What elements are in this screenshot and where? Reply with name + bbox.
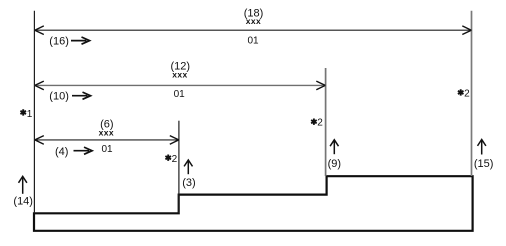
up arrow (14) [19, 176, 27, 193]
svg-text:(14): (14) [13, 196, 33, 208]
svg-text:01: 01 [247, 36, 259, 47]
svg-text:2: 2 [172, 154, 178, 165]
svg-text:(16): (16) [49, 35, 69, 47]
note *2 left [165, 154, 177, 165]
svg-text:2: 2 [464, 88, 470, 99]
svg-text:(15): (15) [474, 158, 494, 170]
svg-text:(3): (3) [182, 177, 195, 189]
extension line at step 2 [325, 68, 327, 176]
svg-text:(9): (9) [328, 158, 341, 170]
note *2 right [458, 88, 470, 99]
up arrow (15) [478, 140, 486, 155]
note *1 [20, 109, 32, 120]
dimension line (6) [35, 136, 179, 145]
extension line right [471, 11, 473, 176]
svg-text:(10): (10) [49, 90, 69, 102]
extension line left [33, 11, 35, 213]
note *2 middle [311, 118, 323, 129]
svg-text:01: 01 [101, 144, 113, 155]
label (4) with arrow [55, 146, 92, 158]
svg-text:(4): (4) [55, 146, 68, 158]
label (16) with arrow [49, 35, 89, 47]
stepped block outline [34, 176, 473, 231]
svg-text:1: 1 [27, 109, 33, 120]
svg-text:01: 01 [174, 89, 186, 100]
extension line at step 1 [178, 121, 180, 213]
label (10) with arrow [49, 90, 90, 102]
dimension line (12) [35, 81, 326, 90]
up arrow (3) [184, 160, 192, 174]
svg-text:2: 2 [317, 118, 323, 129]
dimension line (18) [35, 26, 472, 35]
svg-text:xxx: xxx [172, 70, 187, 80]
svg-text:xxx: xxx [246, 16, 261, 26]
up arrow (9) [330, 140, 338, 154]
svg-text:xxx: xxx [99, 127, 114, 137]
